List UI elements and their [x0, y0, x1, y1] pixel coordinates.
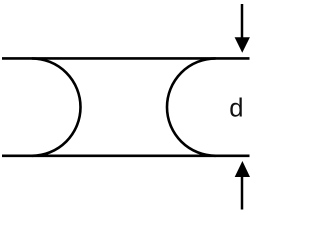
left semicircular arc (bulging right): [32, 58, 81, 155]
top arrowhead (pointing down): [235, 37, 250, 53]
top plate line: [2, 57, 250, 60]
bottom plate line: [2, 155, 250, 158]
bottom arrow shaft: [241, 176, 244, 210]
top arrow shaft: [241, 4, 244, 38]
bottom arrowhead (pointing up): [235, 161, 250, 177]
right semicircular arc (bulging left): [167, 58, 216, 155]
svg-text:d: d: [229, 94, 243, 122]
